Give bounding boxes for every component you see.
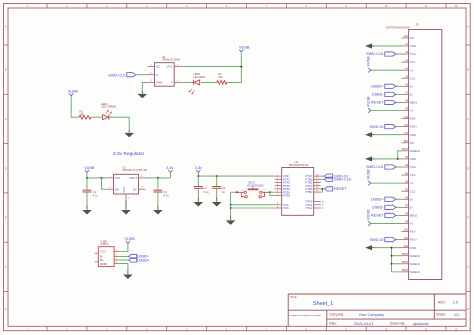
wire (396, 85, 402, 87)
svg-text:SWD-CLK: SWD-CLK (334, 178, 352, 182)
svg-text:EN: EN (115, 187, 119, 191)
wire (396, 239, 402, 241)
title block (288, 294, 466, 326)
svg-text:1/1: 1/1 (454, 312, 459, 317)
ground (365, 156, 375, 161)
wire (270, 191, 275, 193)
wire (102, 178, 107, 189)
connector P1 DX07P024AJ1R1500 (386, 23, 442, 279)
svg-text:150: 150 (218, 75, 223, 79)
junction (391, 263, 393, 265)
svg-text:GND: GND (410, 44, 416, 48)
wire (91, 116, 103, 118)
svg-text:LED-RED: LED-RED (193, 75, 205, 79)
wire (170, 173, 172, 178)
svg-text:C: C (5, 118, 7, 121)
svg-text:D: D (5, 167, 7, 170)
net tag USBD- (372, 92, 396, 96)
svg-text:B10: B10 (404, 230, 409, 232)
svg-text:C: C (467, 118, 469, 121)
svg-text:+V: +V (410, 68, 414, 72)
wire (371, 69, 402, 71)
svg-text:C3: C3 (93, 190, 97, 194)
net tag SWD-IO (369, 238, 395, 242)
svg-text:2019-04-01: 2019-04-01 (354, 321, 374, 326)
svg-text:SHIELD: SHIELD (410, 262, 420, 266)
wire (375, 247, 402, 249)
svg-text:RX2-: RX2- (410, 117, 416, 121)
svg-text:TITLE:: TITLE: (290, 296, 298, 299)
svg-text:A12: A12 (404, 132, 409, 135)
svg-text:Company:: Company: (329, 313, 344, 317)
net tag SWD-IO (325, 174, 349, 178)
svg-text:Sheet_1: Sheet_1 (313, 301, 333, 307)
net flag VUSB (68, 89, 79, 95)
svg-text:BSH4: BSH4 (402, 270, 409, 272)
svg-text:USBD-: USBD- (372, 206, 385, 210)
svg-text:RX1+: RX1+ (410, 238, 417, 242)
svg-text:VUSB: VUSB (84, 166, 95, 170)
svg-text:VUSB: VUSB (366, 209, 370, 220)
net tag RESET (371, 213, 396, 217)
net flag VUSB (124, 237, 135, 243)
net tag SWD-CLK (325, 177, 352, 181)
wire (71, 96, 79, 117)
ground (212, 197, 222, 206)
svg-text:easyeda.com/ajuskovic easyeda: easyeda.com/ajuskovic easyeda (289, 315, 321, 317)
wire (392, 263, 402, 265)
wire (392, 248, 402, 272)
wire (396, 126, 402, 128)
wire (146, 177, 171, 179)
wire (270, 192, 275, 195)
svg-text:C4: C4 (163, 190, 167, 194)
svg-text:SBU1: SBU1 (410, 101, 418, 105)
junction (240, 66, 242, 68)
net tag RESET (371, 100, 396, 104)
svg-text:USBD-: USBD- (372, 93, 385, 97)
svg-text:+V: +V (410, 222, 414, 226)
wire (119, 264, 128, 270)
svg-text:USB-A: USB-A (100, 242, 108, 246)
svg-text:GND: GND (410, 157, 416, 161)
svg-text:B12: B12 (404, 246, 409, 248)
net flag VUSB (366, 56, 371, 73)
net tag USBD- (372, 205, 396, 209)
wire (398, 151, 402, 159)
junction (197, 175, 199, 177)
wire (396, 101, 402, 103)
svg-text:150: 150 (80, 112, 85, 116)
svg-text:0.1u: 0.1u (203, 190, 209, 194)
svg-text:GND: GND (122, 187, 126, 193)
wire (181, 81, 193, 83)
svg-text:A01: A01 (404, 35, 409, 38)
capacitor C2 1u (212, 176, 225, 197)
resistor R1 150 (79, 110, 91, 120)
svg-text:RESET: RESET (334, 187, 347, 191)
net flag VUSB (366, 96, 371, 113)
svg-text:3.3v: 3.3v (166, 166, 173, 170)
net tag SWD-CLK (366, 52, 396, 56)
net flag VUSB (366, 169, 371, 186)
wire (321, 178, 325, 180)
net tag RESET (325, 187, 348, 191)
svg-text:VUSB: VUSB (366, 96, 370, 107)
capacitor C3 4.7u (83, 178, 99, 205)
svg-text:VUSB: VUSB (68, 89, 79, 93)
wire (396, 93, 402, 95)
wire (375, 45, 402, 47)
svg-text:SN74LVC1G08: SN74LVC1G08 (162, 58, 180, 62)
svg-text:TX1+: TX1+ (410, 52, 417, 56)
wire (230, 192, 232, 215)
svg-text:SWD-CLK: SWD-CLK (366, 165, 384, 169)
wire (198, 173, 274, 176)
svg-text:Your Company: Your Company (359, 312, 385, 317)
svg-text:GND: GND (410, 133, 416, 137)
junction (216, 175, 218, 177)
net flag 3.3v (195, 166, 202, 173)
net flag VUSB (239, 46, 250, 53)
wire (181, 66, 241, 68)
ground (365, 43, 375, 48)
wire (119, 259, 129, 261)
svg-text:PTB3: PTB3 (305, 190, 312, 194)
svg-text:TX2+: TX2+ (410, 165, 417, 169)
svg-text:4.7u: 4.7u (93, 193, 99, 197)
section title (113, 151, 145, 157)
op-amp U2 SN74LVC1G08 (148, 55, 182, 86)
svg-text:MIC5317-3.3YD5-TR: MIC5317-3.3YD5-TR (123, 168, 147, 172)
svg-text:EVQP2V02M: EVQP2V02M (247, 184, 264, 188)
wire (231, 207, 275, 209)
junction (269, 191, 271, 193)
junction (236, 191, 238, 193)
svg-text:Drawn By:: Drawn By: (390, 322, 405, 326)
svg-text:Sheet:: Sheet: (436, 313, 446, 317)
ground (194, 197, 204, 206)
svg-text:LED GREEN: LED GREEN (101, 105, 116, 109)
wire (119, 244, 128, 252)
net tag SWD-CLK (366, 165, 396, 169)
wire (201, 81, 217, 83)
junction (101, 177, 103, 179)
wire (396, 53, 402, 55)
capacitor C4 4.7u (153, 178, 169, 205)
wire (321, 189, 323, 192)
wire (392, 255, 402, 257)
svg-text:RX1-: RX1- (410, 230, 416, 234)
wire (110, 117, 130, 130)
svg-text:G: G (467, 308, 469, 311)
svg-text:NC: NC (410, 36, 414, 40)
svg-text:GND: GND (100, 262, 108, 266)
junction (397, 158, 399, 160)
svg-text:D-: D- (410, 92, 413, 96)
net tag SWD-IO (369, 125, 395, 129)
svg-text:REV:: REV: (438, 300, 446, 304)
mcu U3 MKL02Z32VFG4 (275, 160, 325, 215)
wire (87, 173, 107, 178)
ground (153, 205, 163, 214)
junction (230, 204, 232, 206)
svg-text:RESET: RESET (371, 214, 384, 218)
svg-text:RESET: RESET (371, 101, 384, 105)
wire (375, 134, 402, 136)
svg-text:VUSB: VUSB (124, 237, 135, 241)
net tag USBD+ (371, 197, 396, 201)
svg-text:SBU2: SBU2 (410, 213, 418, 217)
svg-text:3.3v: 3.3v (195, 166, 202, 170)
svg-text:SWD-IO: SWD-IO (369, 125, 383, 129)
ground (138, 91, 148, 98)
led LED2 LED-RED (189, 72, 205, 94)
ground (365, 245, 375, 250)
svg-text:ajuskovic: ajuskovic (413, 321, 429, 326)
ground (365, 132, 375, 137)
resistor R2 150 (217, 72, 227, 84)
svg-text:CC2: CC2 (410, 189, 416, 193)
wire (396, 198, 402, 200)
svg-text:VCC: VCC (100, 250, 107, 254)
regulator U1 MIC5317-3.3YD5-TR (107, 165, 147, 200)
connector USB1 USB-A (95, 239, 119, 266)
svg-text:D: D (467, 167, 469, 170)
svg-text:VIN: VIN (115, 176, 120, 180)
svg-text:Y: Y (171, 81, 173, 85)
svg-text:C2: C2 (222, 186, 226, 190)
svg-text:C1: C1 (203, 186, 207, 190)
svg-text:SHIELD: SHIELD (410, 254, 420, 258)
junction (86, 177, 88, 179)
svg-text:G: G (5, 308, 7, 311)
junction (157, 177, 159, 179)
net flag SWD-CLK (108, 73, 136, 78)
svg-text:PTA2: PTA2 (306, 206, 313, 210)
svg-text:3.3v Regulator: 3.3v Regulator (113, 151, 145, 157)
svg-text:SWD-CLK: SWD-CLK (366, 52, 384, 56)
led LED1 LED GREEN (101, 102, 116, 120)
svg-text:A10: A10 (404, 116, 409, 119)
svg-text:USBD+: USBD+ (371, 197, 385, 201)
svg-text:D-: D- (410, 205, 413, 209)
svg-text:VSS: VSS (283, 206, 289, 210)
wire (227, 53, 241, 83)
svg-text:D+: D+ (410, 84, 414, 88)
svg-text:B01: B01 (404, 141, 409, 143)
svg-text:SWD-IO: SWD-IO (369, 238, 383, 242)
svg-text:TX1-: TX1- (410, 60, 416, 64)
net flag VUSB (366, 209, 371, 226)
svg-text:VUSB: VUSB (366, 169, 370, 180)
svg-text:BSH3: BSH3 (402, 262, 409, 264)
ground (82, 205, 92, 214)
svg-text:Date:: Date: (329, 322, 337, 326)
svg-text:4.7u: 4.7u (163, 193, 169, 197)
wire (119, 255, 129, 257)
net tag USBD+ (129, 258, 151, 262)
svg-text:SWD-CLK: SWD-CLK (108, 74, 126, 78)
wire (142, 82, 147, 91)
svg-text:BSH2: BSH2 (402, 254, 409, 256)
junction (391, 247, 393, 249)
wire (396, 166, 402, 168)
svg-text:BSH1: BSH1 (402, 149, 409, 151)
ground (123, 270, 133, 279)
svg-text:1.0: 1.0 (453, 300, 459, 305)
svg-text:USBD+: USBD+ (371, 85, 385, 89)
wire (396, 206, 402, 208)
wire (371, 110, 402, 112)
svg-text:A: A (156, 73, 158, 77)
pushbutton KEY1 EVQP2V02M (237, 180, 270, 198)
svg-text:RX2+: RX2+ (410, 125, 417, 129)
svg-text:DX07P024AJ1R1500: DX07P024AJ1R1500 (386, 27, 410, 30)
svg-text:NC: NC (410, 141, 414, 145)
wire (321, 188, 323, 190)
wire (136, 74, 148, 76)
svg-text:1u: 1u (222, 190, 225, 194)
wire (321, 175, 325, 177)
junction (230, 207, 232, 209)
svg-text:+V: +V (410, 181, 414, 185)
svg-text:VUSB: VUSB (366, 56, 370, 67)
junction (391, 255, 393, 257)
wire (231, 191, 237, 193)
net tag USBD+ (371, 84, 396, 88)
capacitor C1 0.1u (194, 176, 209, 197)
wire (231, 204, 275, 206)
svg-text:GND: GND (156, 81, 164, 85)
wire (396, 214, 402, 216)
svg-text:GND: GND (410, 246, 416, 250)
ground (121, 200, 131, 215)
svg-text:+V: +V (410, 109, 414, 113)
svg-text:SHIELD: SHIELD (410, 270, 420, 274)
junction (321, 188, 323, 190)
svg-text:USBD+: USBD+ (137, 258, 151, 262)
svg-text:SHIELD: SHIELD (410, 149, 420, 153)
ground (124, 130, 134, 137)
svg-text:VUSB: VUSB (239, 46, 250, 50)
svg-text:VCC: VCC (166, 65, 173, 69)
svg-text:D+: D+ (410, 197, 414, 201)
wire (375, 158, 402, 160)
svg-text:CC1: CC1 (410, 76, 416, 80)
net tag USBD- (129, 254, 150, 258)
wire (371, 222, 402, 224)
svg-text:PTB4: PTB4 (283, 194, 290, 198)
ground (226, 216, 236, 225)
svg-text:TX2-: TX2- (410, 173, 416, 177)
net flag 3.3v (166, 166, 173, 173)
svg-text:MKL02Z32VFG4: MKL02Z32VFG4 (289, 163, 309, 167)
net flag VUSB (84, 166, 95, 173)
svg-text:VOUT: VOUT (129, 176, 138, 180)
wire (371, 182, 402, 184)
